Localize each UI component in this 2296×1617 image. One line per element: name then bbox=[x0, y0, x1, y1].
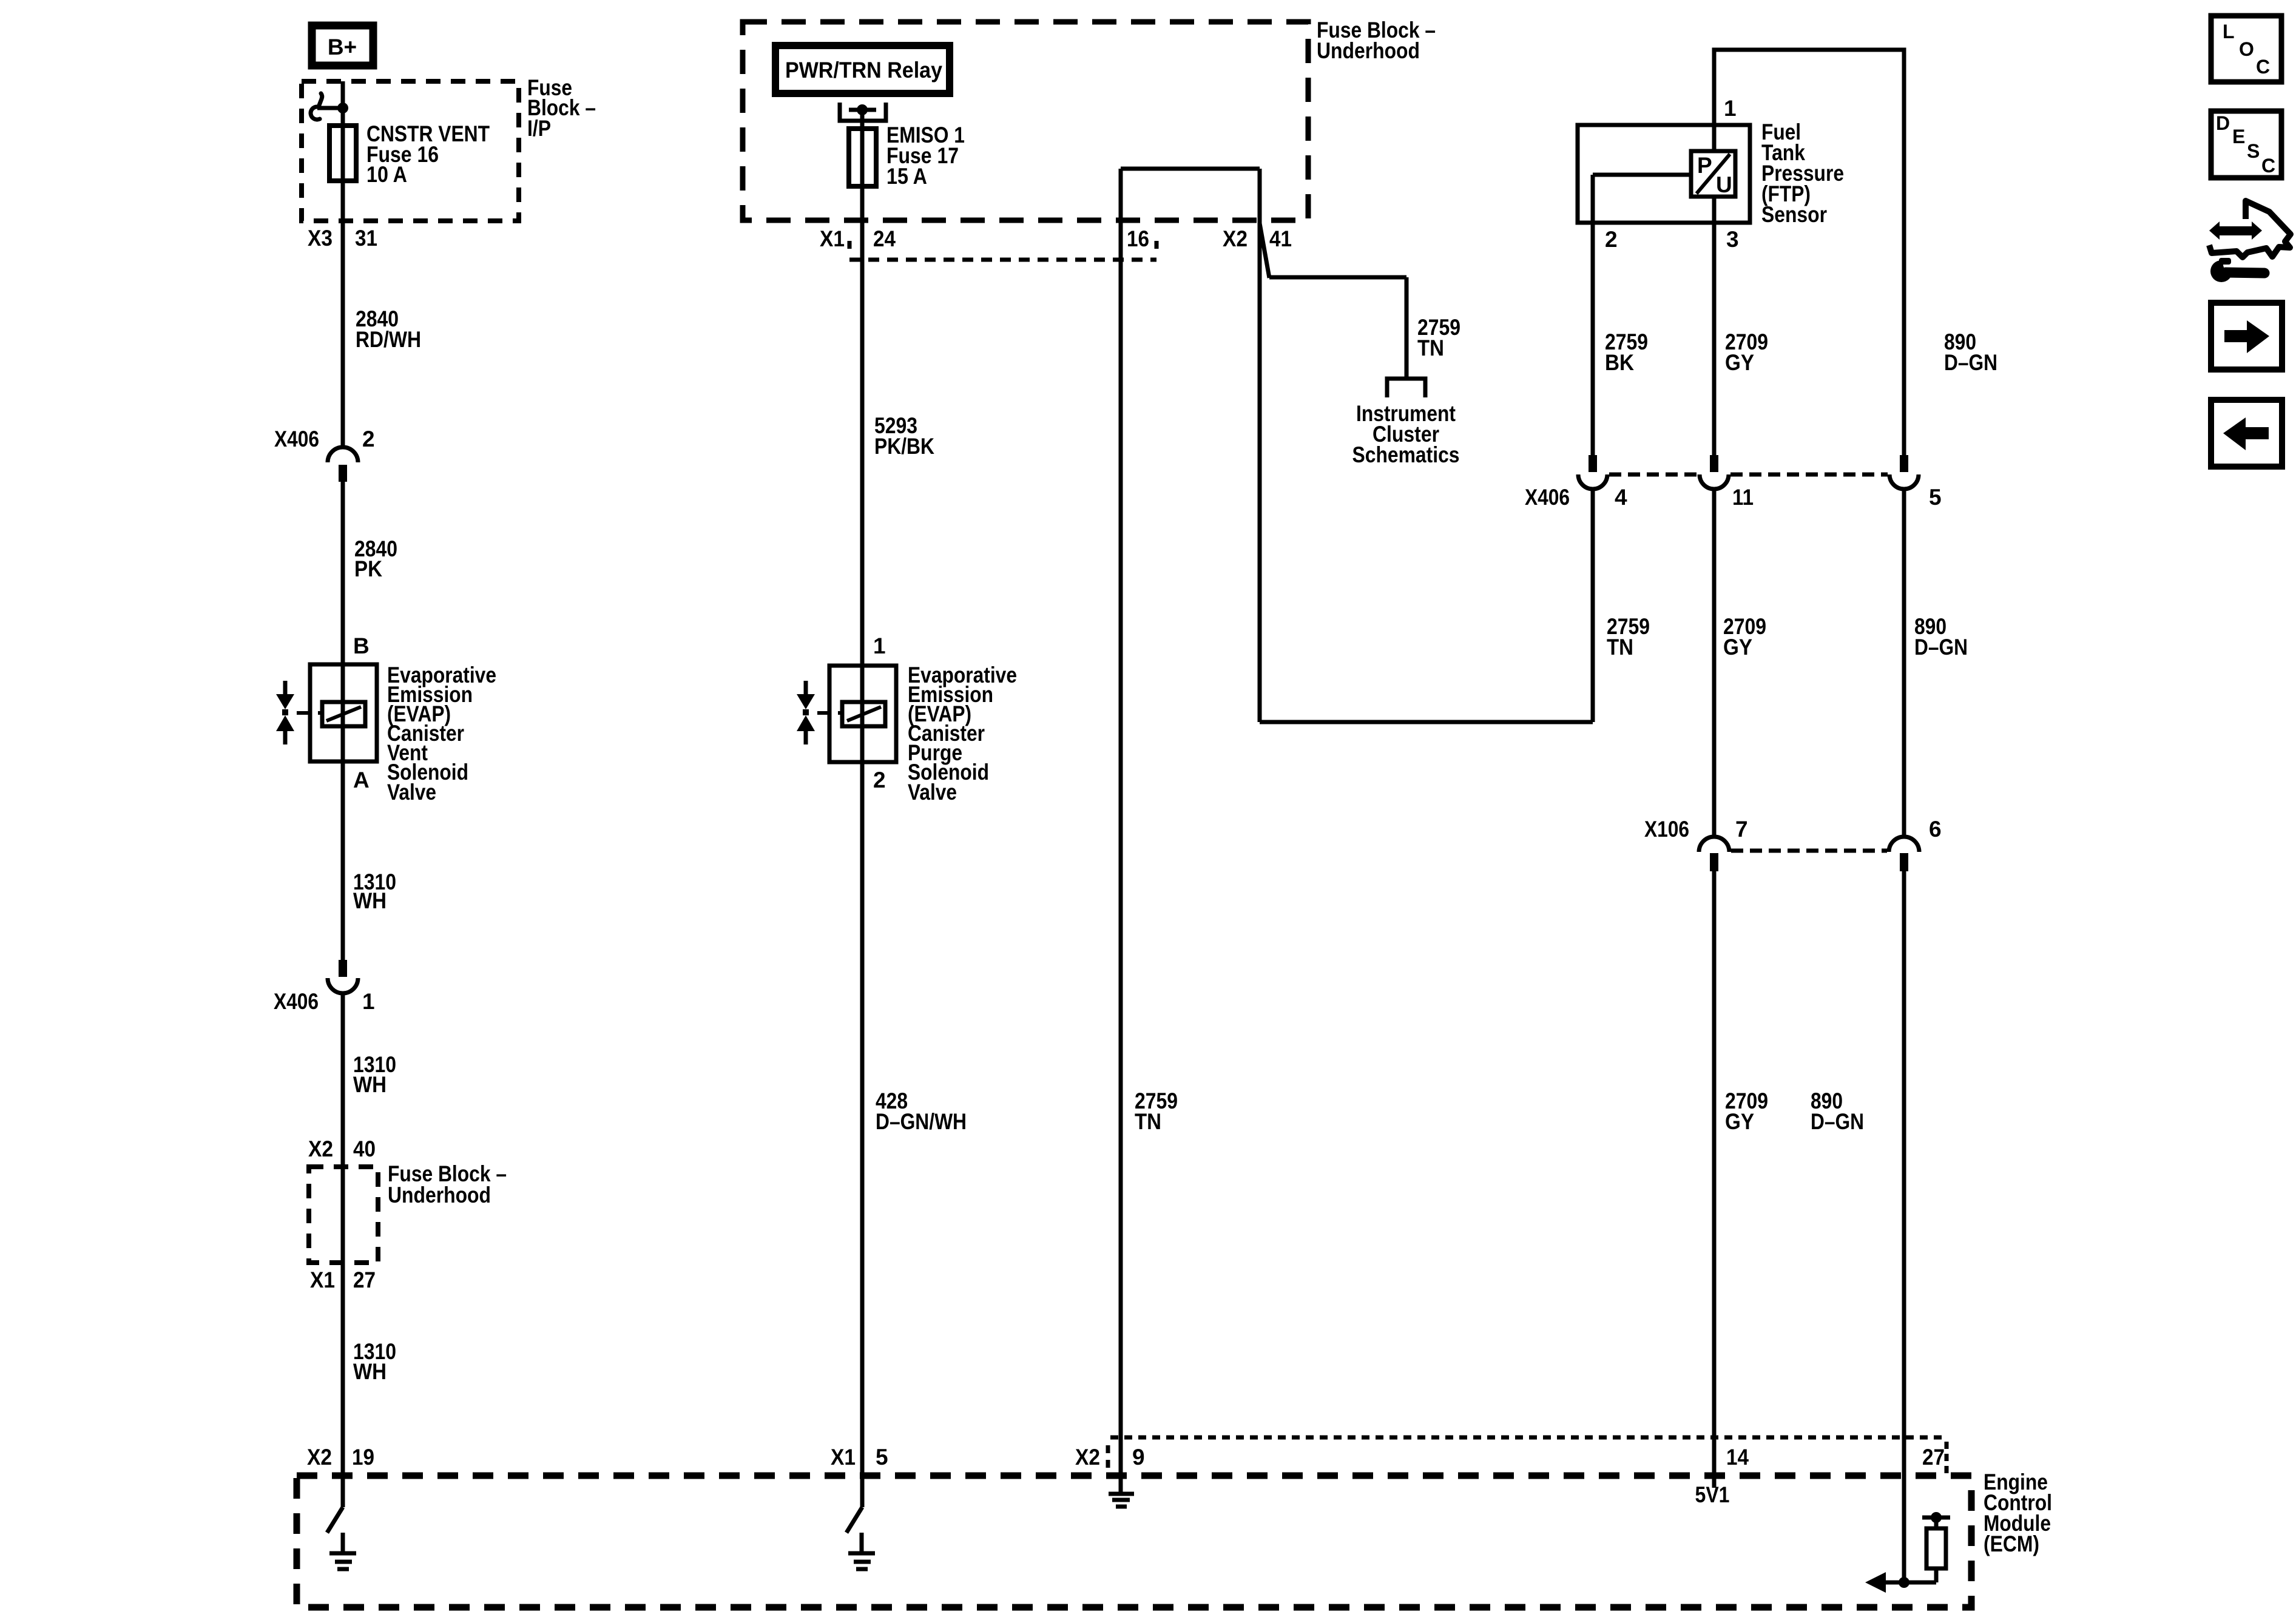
svg-text:D: D bbox=[2216, 112, 2230, 134]
wire 2759 TN from pin 16 to ECM pin 9 bbox=[1119, 169, 1123, 1493]
ECM internal pull-up resistor bbox=[1922, 1512, 1950, 1582]
svg-text:1: 1 bbox=[1724, 96, 1737, 121]
svg-text:1: 1 bbox=[873, 633, 886, 658]
pin labels X2 19 bbox=[307, 1445, 374, 1470]
svg-text:X2: X2 bbox=[1223, 226, 1248, 251]
svg-text:B: B bbox=[353, 633, 370, 658]
svg-text:D–GN: D–GN bbox=[1944, 350, 1997, 375]
junction node at B+ feed bbox=[337, 103, 348, 113]
connector X406 pin 5 bbox=[1889, 455, 1919, 489]
svg-text:5V1: 5V1 bbox=[1695, 1482, 1730, 1507]
svg-text:Underhood: Underhood bbox=[388, 1183, 491, 1207]
svg-text:PWR/TRN Relay: PWR/TRN Relay bbox=[785, 58, 942, 83]
svg-text:15 A: 15 A bbox=[886, 164, 927, 189]
label Fuse Block - Underhood bbox=[388, 1161, 507, 1207]
label Fuse Block - I/P bbox=[527, 75, 596, 141]
wire label 890 D-GN bbox=[1944, 329, 1997, 375]
svg-text:X406: X406 bbox=[274, 989, 319, 1014]
off-page reference to instrument cluster bbox=[1387, 379, 1425, 397]
wire label 890 D-GN bbox=[1914, 614, 1968, 660]
solenoid coil bbox=[322, 702, 365, 726]
label Instrument Cluster Schematics bbox=[1352, 401, 1460, 467]
wire FTP pin3 bbox=[1712, 195, 1717, 455]
pin labels X1 24 bbox=[820, 226, 896, 251]
wire branch pin 41 to instrument cluster bbox=[1260, 223, 1406, 379]
svg-text:5: 5 bbox=[876, 1445, 888, 1470]
svg-text:D–GN: D–GN bbox=[1811, 1109, 1864, 1134]
label EVAP canister purge solenoid valve bbox=[908, 663, 1017, 805]
svg-text:PK: PK bbox=[354, 556, 382, 581]
svg-text:GY: GY bbox=[1725, 350, 1754, 375]
svg-text:41: 41 bbox=[1269, 226, 1292, 251]
wire 2709 GY to ECM pin 14 bbox=[1712, 871, 1717, 1488]
svg-text:Schematics: Schematics bbox=[1352, 442, 1460, 467]
svg-text:X1: X1 bbox=[820, 226, 845, 251]
pin labels X2 40 bbox=[308, 1136, 376, 1161]
relay contact bar bbox=[849, 108, 876, 112]
fuse block internal bus pin16 to pin41 bbox=[1121, 169, 1260, 722]
wire B+ to fuse 16 and down to X3/31 bbox=[341, 81, 345, 448]
ECM dashed box bbox=[297, 1476, 1971, 1607]
svg-text:TN: TN bbox=[1135, 1109, 1161, 1134]
pin labels X2 9 bbox=[1075, 1445, 1145, 1470]
junction node at pin 27 net bbox=[1899, 1577, 1909, 1588]
Fuse Block - Underhood dashed box bbox=[743, 22, 1308, 220]
label Engine Control Module (ECM) bbox=[1984, 1470, 2052, 1556]
label EVAP canister vent solenoid valve bbox=[387, 663, 496, 805]
wire label 2840 RD/WH bbox=[356, 306, 421, 352]
connector X406 pin 1 bbox=[328, 960, 358, 993]
value label CNSTR VENT Fuse 16 10 A bbox=[366, 121, 490, 187]
wire label 5293 PK/BK bbox=[874, 413, 934, 459]
labels X406 2 bbox=[274, 427, 375, 451]
EVAP canister vent solenoid valve body bbox=[310, 664, 377, 761]
wire 890 D-GN to ECM pin 27 bbox=[1902, 871, 1906, 1582]
label Fuel Tank Pressure (FTP) Sensor bbox=[1761, 120, 1844, 227]
switch leg inside ECM at pin 5 bbox=[846, 1507, 862, 1533]
connector dotted line X1/X2 underhood bbox=[849, 241, 1156, 260]
valve symbol bbox=[797, 681, 842, 744]
icon DESC bbox=[2211, 111, 2281, 178]
svg-text:O: O bbox=[2239, 38, 2254, 60]
connector X106 pin 6 bbox=[1889, 837, 1919, 871]
svg-text:C: C bbox=[2261, 155, 2275, 177]
svg-text:Valve: Valve bbox=[908, 780, 957, 805]
wire label 2709 GY bbox=[1723, 614, 1766, 660]
icon wrench and harness bbox=[2209, 201, 2291, 282]
wire FTP pin1 loop to 890 D-GN bbox=[1714, 50, 1904, 455]
svg-text:L: L bbox=[2223, 21, 2235, 42]
svg-text:D–GN: D–GN bbox=[1914, 635, 1968, 660]
svg-text:10 A: 10 A bbox=[366, 162, 407, 187]
pin labels X1 27 bbox=[310, 1268, 376, 1292]
wire label 1310 WH bbox=[353, 1339, 396, 1384]
icon forward arrow bbox=[2211, 303, 2282, 370]
svg-text:TN: TN bbox=[1417, 336, 1444, 360]
svg-text:D–GN/WH: D–GN/WH bbox=[876, 1109, 967, 1134]
ECM internal signal line with arrow bbox=[1865, 1572, 1936, 1593]
ground at ECM pin 9 bbox=[1109, 1494, 1134, 1507]
svg-text:PK/BK: PK/BK bbox=[874, 434, 934, 459]
valve symbol bbox=[276, 681, 322, 744]
wire label 428 D-GN/WH bbox=[876, 1089, 967, 1134]
svg-text:19: 19 bbox=[352, 1445, 374, 1470]
pin labels X3 31 bbox=[308, 226, 377, 251]
wire 2709 GY FTP pin3 to X106 bbox=[1712, 489, 1717, 836]
wire label 2759 TN bbox=[1417, 315, 1460, 360]
EVAP canister purge solenoid valve body bbox=[829, 666, 896, 762]
svg-text:4: 4 bbox=[1615, 485, 1627, 510]
wire label 2759 TN bbox=[1135, 1089, 1178, 1134]
icon LOC bbox=[2211, 16, 2281, 82]
wire relay to fuse 17 down to ECM bbox=[860, 110, 865, 1507]
svg-text:9: 9 bbox=[1132, 1445, 1145, 1470]
svg-text:Valve: Valve bbox=[387, 780, 436, 805]
svg-text:WH: WH bbox=[353, 1072, 387, 1097]
svg-text:X106: X106 bbox=[1644, 817, 1689, 842]
junction node relay output bbox=[857, 104, 868, 115]
labels X406 4 11 5 bbox=[1525, 485, 1942, 510]
svg-text:40: 40 bbox=[353, 1136, 376, 1161]
svg-text:RD/WH: RD/WH bbox=[356, 327, 421, 352]
connector X406 pin 11 bbox=[1700, 455, 1729, 489]
connector X406 pin 2 bbox=[328, 447, 358, 482]
Fuse Block Underhood pass-through dashed box bbox=[309, 1167, 378, 1263]
fuse F17 EMISO 1 bbox=[849, 129, 876, 186]
labels X406 1 bbox=[274, 989, 375, 1014]
svg-text:24: 24 bbox=[873, 226, 896, 251]
svg-text:(ECM): (ECM) bbox=[1984, 1531, 2039, 1556]
svg-text:GY: GY bbox=[1723, 635, 1752, 660]
switch leg inside ECM at pin 19 bbox=[327, 1507, 343, 1533]
pin labels X1 5 bbox=[831, 1445, 888, 1470]
wire tan jumper to X406 pin 4 bbox=[1260, 489, 1593, 722]
svg-text:X406: X406 bbox=[1525, 485, 1570, 510]
svg-text:I/P: I/P bbox=[527, 116, 551, 141]
FTP sensor P/U element bbox=[1691, 151, 1735, 197]
wire label 2709 GY bbox=[1725, 329, 1768, 375]
svg-text:Sensor: Sensor bbox=[1761, 202, 1827, 227]
svg-text:E: E bbox=[2232, 126, 2245, 147]
svg-text:Underhood: Underhood bbox=[1317, 38, 1420, 63]
svg-text:27: 27 bbox=[1922, 1445, 1945, 1470]
pin labels X2 41 bbox=[1223, 226, 1292, 251]
svg-text:A: A bbox=[353, 768, 370, 792]
svg-text:U: U bbox=[1716, 172, 1732, 197]
svg-text:31: 31 bbox=[355, 226, 377, 251]
svg-text:X2: X2 bbox=[308, 1136, 333, 1161]
svg-text:GY: GY bbox=[1725, 1109, 1754, 1134]
svg-text:7: 7 bbox=[1735, 817, 1748, 842]
ECM X2 connector dotted line bbox=[1108, 1437, 1947, 1476]
Fuse Block - I/P dashed box bbox=[302, 81, 519, 221]
wire label 890 D-GN bbox=[1811, 1089, 1864, 1134]
wire label 2840 PK bbox=[354, 536, 397, 581]
svg-text:S: S bbox=[2247, 140, 2260, 162]
wire label 2759 BK bbox=[1605, 329, 1648, 375]
svg-text:C: C bbox=[2256, 56, 2270, 78]
connector dashes X106 bbox=[1731, 849, 1887, 853]
wire label 2709 GY bbox=[1725, 1089, 1768, 1134]
svg-text:X3: X3 bbox=[308, 226, 333, 251]
relay contact hook at fuse 16 bbox=[311, 93, 343, 120]
svg-text:P: P bbox=[1697, 153, 1712, 178]
svg-text:WH: WH bbox=[353, 888, 387, 913]
svg-text:WH: WH bbox=[353, 1359, 387, 1384]
svg-text:5: 5 bbox=[1929, 485, 1942, 510]
wire FTP pin2 internal bbox=[1593, 175, 1691, 455]
labels X106 7 6 bbox=[1644, 817, 1942, 842]
wire label 2759 TN bbox=[1607, 614, 1650, 660]
svg-text:14: 14 bbox=[1726, 1445, 1749, 1470]
wire 890 D-GN to X106 bbox=[1902, 489, 1906, 836]
svg-text:B+: B+ bbox=[328, 35, 357, 59]
connector X106 pin 7 bbox=[1699, 837, 1729, 871]
svg-text:1: 1 bbox=[362, 989, 375, 1014]
ground at ECM pin 19 bbox=[329, 1533, 356, 1569]
svg-text:X2: X2 bbox=[307, 1445, 332, 1470]
value label EMISO 1 Fuse 17 15 A bbox=[886, 123, 965, 189]
label Fuse Block - Underhood bbox=[1317, 18, 1436, 63]
FTP sensor box bbox=[1578, 125, 1750, 223]
svg-text:6: 6 bbox=[1929, 817, 1942, 842]
svg-text:16: 16 bbox=[1127, 226, 1149, 251]
svg-text:2: 2 bbox=[1605, 227, 1618, 252]
connector dashes X406 bbox=[1609, 473, 1888, 477]
svg-text:X406: X406 bbox=[274, 427, 319, 451]
power symbol B+ bbox=[312, 25, 373, 66]
svg-text:X1: X1 bbox=[310, 1268, 335, 1292]
svg-text:27: 27 bbox=[353, 1268, 376, 1292]
relay PWR/TRN bbox=[775, 46, 950, 93]
fuse F16 CNSTR VENT bbox=[329, 126, 356, 181]
icon back arrow bbox=[2211, 400, 2282, 467]
wire 2840 PK bbox=[341, 482, 345, 960]
svg-text:2: 2 bbox=[873, 768, 886, 792]
svg-text:X2: X2 bbox=[1075, 1445, 1100, 1470]
svg-text:11: 11 bbox=[1732, 485, 1754, 510]
wire 1310 WH to fuse block underhood bbox=[341, 993, 345, 1507]
svg-text:X1: X1 bbox=[831, 1445, 856, 1470]
solenoid coil bbox=[842, 702, 885, 726]
svg-text:3: 3 bbox=[1726, 227, 1739, 252]
ground at ECM pin 5 bbox=[848, 1533, 875, 1569]
svg-text:BK: BK bbox=[1605, 350, 1634, 375]
connector X406 pin 4 bbox=[1578, 455, 1607, 489]
svg-text:TN: TN bbox=[1607, 635, 1633, 660]
wire label 1310 WH bbox=[353, 869, 396, 913]
wire label 1310 WH bbox=[353, 1052, 396, 1097]
svg-text:2: 2 bbox=[362, 427, 375, 451]
relay output bracket bbox=[840, 103, 886, 121]
